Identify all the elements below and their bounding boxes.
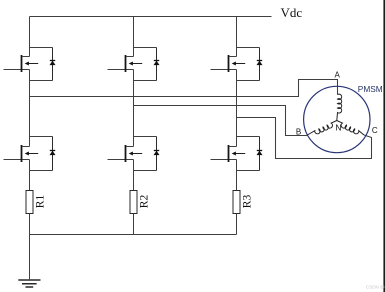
wire leg2 source to resistor xyxy=(133,171,135,191)
wire phase node A vertical xyxy=(29,81,31,147)
wire R3 bottom xyxy=(236,214,238,235)
wire phase node B vertical xyxy=(133,81,135,147)
svg-text:Vdc: Vdc xyxy=(281,5,303,20)
svg-text:B: B xyxy=(296,128,301,137)
svg-text:C: C xyxy=(372,126,378,135)
svg-text:R1: R1 xyxy=(35,195,47,209)
transistor Q1 xyxy=(4,48,53,81)
resistor R1 xyxy=(26,191,33,214)
svg-text:N: N xyxy=(335,123,341,133)
wire leg3 drain from rail xyxy=(236,17,238,57)
transistor Q4 xyxy=(108,137,157,171)
wire phase C to motor xyxy=(237,118,372,159)
transistor Q3 xyxy=(108,48,157,81)
transistor Q2 xyxy=(4,137,53,171)
wire R2 bottom xyxy=(133,214,135,235)
wire Vdc top rail xyxy=(30,16,272,18)
svg-text:A: A xyxy=(335,71,341,80)
diode D5 xyxy=(259,48,261,81)
wire R1 bottom to ground xyxy=(29,214,31,280)
svg-text:CSDN @QQ: CSDN @QQ xyxy=(366,285,385,290)
diode D6 xyxy=(259,137,261,171)
wire leg2 drain from rail xyxy=(133,17,135,57)
svg-text:R2: R2 xyxy=(139,195,151,209)
resistor R2 xyxy=(130,191,137,214)
winding B xyxy=(307,121,337,136)
diode D4 xyxy=(156,137,158,171)
diode D3 xyxy=(156,48,158,81)
wire phase A to motor xyxy=(30,80,338,97)
border right edge xyxy=(383,0,385,292)
transistor Q6 xyxy=(211,137,260,171)
wire bottom rail xyxy=(30,234,237,236)
diode D2 xyxy=(52,137,54,171)
ground xyxy=(18,280,40,287)
svg-text:R3: R3 xyxy=(242,195,254,209)
wire phase node C vertical xyxy=(236,81,238,147)
resistor R3 xyxy=(233,191,240,214)
wire leg1 drain from rail xyxy=(29,17,31,57)
winding C xyxy=(337,121,364,136)
transistor Q5 xyxy=(211,48,260,81)
winding A xyxy=(337,94,342,120)
motor PMSM circle xyxy=(304,86,370,152)
wire leg1 source to resistor xyxy=(29,171,31,191)
svg-text:PMSM: PMSM xyxy=(358,84,383,94)
wire leg3 source to resistor xyxy=(236,171,238,191)
diode D1 xyxy=(52,48,54,81)
wire phase B to motor xyxy=(134,106,307,136)
